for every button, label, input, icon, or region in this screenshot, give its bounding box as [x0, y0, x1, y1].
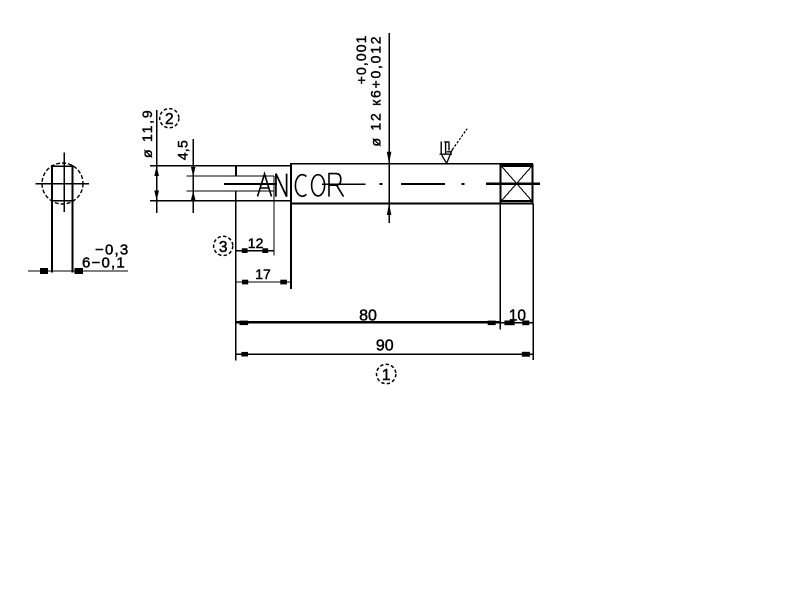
dimension 80 line — [235, 321, 501, 323]
shaft end face lower tick and extension line down — [235, 192, 237, 361]
knurl square right edge — [531, 164, 533, 204]
position circle 2 — [160, 109, 179, 128]
dimension d12 k6 bottom arrow — [387, 204, 392, 215]
dimension 10 left arrow — [504, 321, 514, 326]
end view right flat / extension line — [72, 165, 74, 273]
knurl diagonal 1 — [502, 167, 531, 200]
shaft left section bottom edge — [150, 200, 290, 202]
end view circle — [42, 163, 83, 204]
svg-text:80: 80 — [359, 307, 377, 324]
svg-text:+0,001: +0,001 — [353, 34, 369, 84]
dimension 80 right arrow — [488, 321, 496, 326]
dimension 4.5 bottom arrow — [191, 191, 196, 200]
dimension 12 left arrow — [242, 248, 248, 253]
svg-text:2: 2 — [165, 111, 174, 128]
axis centerline dash 1 — [224, 183, 277, 185]
dimension 12 right arrow — [262, 248, 268, 253]
roughness symbol bar — [440, 153, 453, 155]
dimension 80 left arrow — [240, 321, 249, 326]
end view horizontal centerline — [36, 183, 90, 185]
dimension d12 k6 line — [388, 33, 390, 223]
svg-text:3: 3 — [219, 239, 228, 256]
dimension 10 right arrow — [522, 321, 529, 326]
dimension d11.9 top arrow — [154, 166, 159, 176]
watermark letter O — [312, 175, 325, 196]
dimension 17 line — [236, 281, 291, 283]
svg-text:6−0,1: 6−0,1 — [82, 254, 126, 271]
dimension 4.5 line — [192, 139, 194, 213]
knurl square top edge — [500, 164, 534, 167]
svg-text:90: 90 — [376, 338, 394, 355]
knurl square left edge — [500, 164, 502, 204]
watermark letter C — [295, 175, 306, 197]
shaft step line at x290 with extension down — [290, 163, 292, 289]
keyway top line — [187, 175, 275, 177]
extension line below knurl right — [532, 204, 534, 360]
svg-text:12: 12 — [248, 235, 264, 251]
position circle 3 — [214, 236, 233, 255]
roughness symbol marks — [441, 142, 451, 155]
axis centerline dot 2 — [462, 183, 465, 185]
end view vertical centerline — [63, 153, 65, 213]
dimension 10 line — [501, 322, 534, 324]
watermark letter R — [329, 174, 344, 197]
svg-text:ø 11,9: ø 11,9 — [139, 109, 155, 158]
shaft end face upper tick — [235, 165, 237, 176]
end view top chord — [52, 165, 74, 167]
watermark letter A — [258, 174, 272, 197]
dimension 6 right arrow — [75, 268, 84, 274]
shaft left section top edge — [150, 165, 290, 167]
dimension 90 left arrow — [241, 352, 248, 357]
dimension 6 left arrow — [40, 268, 48, 274]
dimension d11.9 bottom arrow — [154, 191, 159, 201]
watermark letter N — [276, 174, 287, 197]
dimension 4.5 top arrow — [191, 167, 196, 176]
axis centerline dot 1 — [380, 183, 383, 185]
end view bottom chord — [52, 200, 74, 202]
dimension 17 left arrow — [242, 280, 248, 285]
knurl square bottom line — [501, 200, 533, 202]
axis centerline dash 3 — [401, 183, 445, 185]
svg-text:4,5: 4,5 — [174, 140, 190, 160]
position circle 1 — [377, 364, 396, 383]
dimension 6 line — [28, 270, 128, 272]
dimension 12 line — [236, 250, 274, 252]
svg-text:10: 10 — [509, 307, 527, 324]
dimension 90 right arrow — [522, 352, 530, 357]
extension line below knurl left — [499, 204, 501, 329]
svg-text:17: 17 — [255, 266, 271, 282]
svg-text:1: 1 — [382, 367, 391, 384]
knurl diagonal 2 — [502, 167, 531, 200]
keyway bottom line — [187, 190, 275, 192]
axis centerline dash 2 — [322, 183, 366, 185]
keyway end line with extension down — [273, 176, 275, 256]
dimension d11.9 line — [156, 110, 158, 213]
shaft main section top edge — [290, 163, 533, 165]
dimension d12 k6 top arrow — [387, 152, 392, 164]
roughness symbol check — [442, 150, 453, 164]
dimension 17 right arrow — [280, 280, 287, 285]
roughness symbol leader arm — [452, 129, 467, 150]
axis centerline dash 4 through knurl — [486, 183, 540, 185]
shaft main section bottom edge — [290, 203, 533, 205]
dimension 90 line — [235, 353, 533, 355]
end view left flat / extension line — [51, 165, 53, 273]
svg-text:ø 12 к6+0,012: ø 12 к6+0,012 — [368, 35, 384, 147]
